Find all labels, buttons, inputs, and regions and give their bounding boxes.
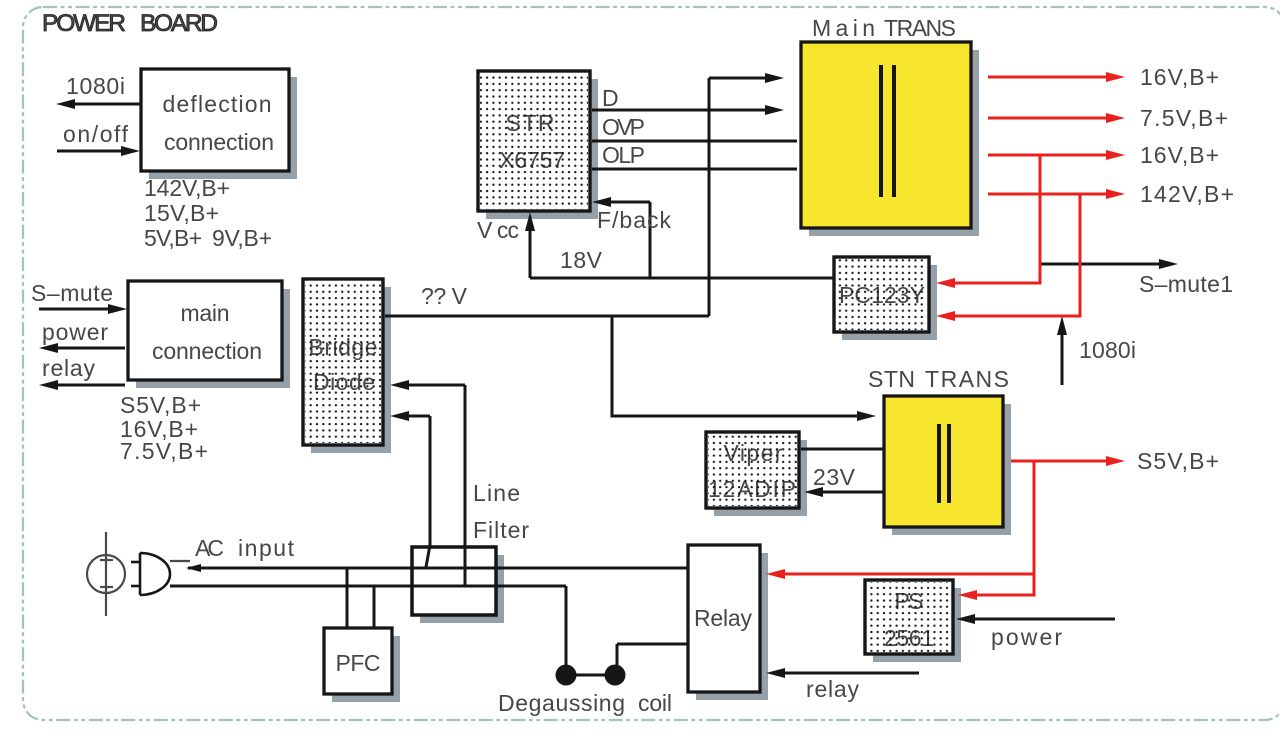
svg-text:main: main xyxy=(181,300,230,326)
svg-text:PFC: PFC xyxy=(336,650,381,676)
svg-text:S–mute: S–mute xyxy=(31,280,113,306)
svg-text:OLP: OLP xyxy=(602,142,645,168)
svg-text:16V,B+: 16V,B+ xyxy=(1140,142,1219,168)
svg-text:7.5V,B+: 7.5V,B+ xyxy=(120,438,208,464)
svg-text:142V,B+: 142V,B+ xyxy=(1140,181,1234,207)
svg-text:1080i: 1080i xyxy=(66,73,125,99)
svg-text:relay: relay xyxy=(806,676,860,702)
svg-text:S–mute1: S–mute1 xyxy=(1139,271,1233,297)
svg-text:TRANS: TRANS xyxy=(884,15,956,41)
svg-text:S5V,B+: S5V,B+ xyxy=(120,392,201,418)
svg-text:connection: connection xyxy=(164,129,274,155)
svg-text:Relay: Relay xyxy=(694,605,753,631)
svg-text:9V,B+: 9V,B+ xyxy=(212,225,272,251)
svg-text:?? V: ?? V xyxy=(421,283,468,309)
svg-text:1080i: 1080i xyxy=(1079,337,1136,363)
svg-text:Degaussing: Degaussing xyxy=(498,690,625,716)
svg-text:power: power xyxy=(991,624,1062,650)
svg-text:deflection: deflection xyxy=(163,91,272,117)
svg-text:23V: 23V xyxy=(813,464,856,490)
svg-text:TRANS: TRANS xyxy=(925,366,1009,392)
svg-text:15V,B+: 15V,B+ xyxy=(144,200,219,226)
svg-text:D: D xyxy=(602,85,619,111)
svg-text:POWER: POWER xyxy=(42,10,126,37)
svg-text:AC: AC xyxy=(195,535,224,561)
svg-text:relay: relay xyxy=(42,355,96,381)
svg-text:16V,B+: 16V,B+ xyxy=(1140,64,1219,90)
svg-text:Main: Main xyxy=(812,15,875,41)
svg-text:5V,B+: 5V,B+ xyxy=(144,225,202,251)
svg-text:F/back: F/back xyxy=(597,207,672,233)
svg-text:S5V,B+: S5V,B+ xyxy=(1137,448,1219,474)
svg-text:coil: coil xyxy=(638,690,672,716)
svg-text:STN: STN xyxy=(868,366,915,392)
svg-text:OVP: OVP xyxy=(602,114,645,140)
svg-text:BOARD: BOARD xyxy=(140,10,218,37)
svg-text:connection: connection xyxy=(152,338,262,364)
svg-text:on/off: on/off xyxy=(63,121,129,147)
svg-text:input: input xyxy=(238,535,295,561)
svg-text:7.5V,B+: 7.5V,B+ xyxy=(1140,105,1228,131)
svg-text:V cc: V cc xyxy=(477,217,519,243)
svg-text:power: power xyxy=(42,319,108,345)
svg-text:Filter: Filter xyxy=(473,517,529,543)
svg-text:18V: 18V xyxy=(560,247,603,273)
svg-text:Line: Line xyxy=(473,480,520,506)
svg-text:142V,B+: 142V,B+ xyxy=(144,175,230,201)
